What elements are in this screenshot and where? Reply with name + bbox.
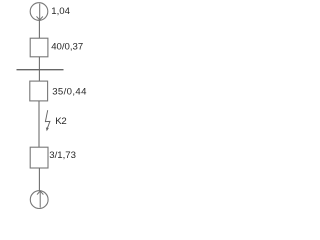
source arrow (down) — [37, 4, 43, 20]
wire source to box X1 — [38, 20, 40, 38]
generator G (circle) — [30, 191, 48, 209]
svg-text:40/0,37: 40/0,37 — [51, 41, 83, 52]
fault K2 lightning arrow — [45, 110, 50, 131]
busbar — [17, 69, 64, 71]
wire box X1 to busbar — [38, 57, 40, 81]
wire box X2 to box X3 — [38, 101, 40, 147]
reactance box X2 — [30, 81, 48, 101]
reactance box X1 — [30, 38, 48, 57]
value label 1,04 — [51, 6, 70, 17]
reactance box X3 — [30, 147, 48, 168]
svg-text:35/0,44: 35/0,44 — [52, 86, 87, 97]
source system S (circle) — [30, 3, 48, 21]
fault label K2 — [55, 116, 66, 127]
value label 3/1,73 — [49, 150, 76, 161]
svg-text:K2: K2 — [55, 116, 66, 127]
svg-text:3/1,73: 3/1,73 — [49, 150, 76, 161]
value label 40/0,37 — [51, 41, 83, 52]
value label 35/0,44 — [52, 86, 87, 97]
generator arrow (up) — [37, 191, 43, 208]
wire box X3 to generator — [38, 168, 40, 191]
svg-text:1,04: 1,04 — [51, 6, 70, 17]
